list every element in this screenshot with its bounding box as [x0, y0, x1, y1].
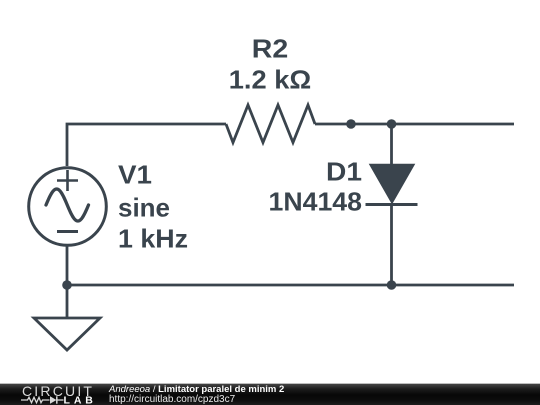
resistor R2 — [226, 105, 315, 143]
svg-text:sine: sine — [118, 193, 170, 223]
wire from resistor R2 right lead to right edge — [315, 123, 514, 126]
svg-text:LAB: LAB — [64, 395, 97, 405]
voltage source V1 — [29, 168, 107, 246]
svg-text:1.2 kΩ: 1.2 kΩ — [229, 65, 312, 95]
node junction at V1 bottom / ground — [62, 280, 72, 290]
ground — [34, 318, 100, 350]
wire from V1 top to resistor R2 left lead — [67, 124, 226, 166]
label V1 name and values — [118, 160, 188, 254]
svg-text:1N4148: 1N4148 — [269, 187, 363, 217]
wire from diode D1 cathode to bottom rail — [390, 204, 393, 285]
label R2 name and value — [229, 34, 312, 95]
wire from top rail down to diode D1 anode — [390, 124, 393, 166]
wire from V1 bottom down to ground — [66, 245, 69, 318]
diode D1 — [366, 165, 418, 205]
svg-text:R2: R2 — [252, 34, 289, 64]
wire bottom rail — [67, 284, 514, 287]
CircuitLab footer bar — [0, 380, 540, 405]
node junction at diode branch top — [387, 119, 397, 129]
svg-text:D1: D1 — [326, 157, 362, 187]
svg-text:V1: V1 — [118, 160, 152, 190]
attribution text — [109, 385, 284, 405]
node junction at diode branch bottom — [387, 280, 397, 290]
node junction at R2 output — [346, 119, 356, 129]
CircuitLab logo — [0, 380, 110, 405]
label D1 name and value — [269, 157, 363, 217]
svg-text:1 kHz: 1 kHz — [118, 224, 188, 254]
